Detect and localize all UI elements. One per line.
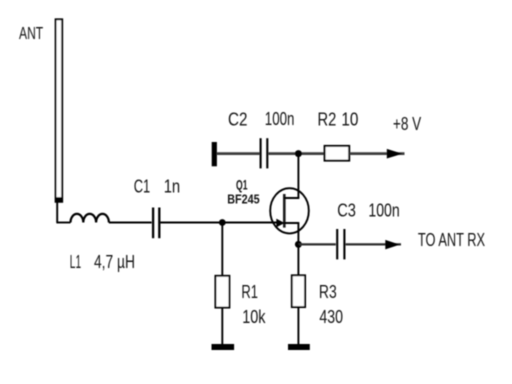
label C2	[228, 110, 248, 130]
wire ground bar to C2	[217, 152, 260, 155]
wire R2 to +8V arrow	[349, 152, 404, 155]
transistor Q1	[270, 188, 309, 233]
svg-text:1n: 1n	[164, 176, 181, 196]
svg-text:430: 430	[319, 307, 343, 327]
svg-text:ANT: ANT	[19, 23, 43, 43]
label Q1	[236, 176, 248, 192]
label C3 value 100n	[368, 201, 399, 221]
label Q1 type BF245	[227, 192, 260, 206]
svg-text:C1: C1	[134, 176, 151, 196]
label C2 value 100n	[265, 109, 295, 129]
resistor R2	[325, 146, 350, 161]
ground under R1	[212, 344, 235, 350]
capacitor C2	[261, 138, 268, 168]
junction node at gate / R1	[219, 219, 226, 226]
junction node source / C3 / R3	[295, 241, 302, 248]
wire L1 to C1	[109, 222, 152, 224]
svg-text:L1: L1	[70, 252, 81, 272]
svg-text:R2: R2	[318, 110, 337, 130]
label R2 value 10	[341, 110, 358, 130]
label +8 V net	[393, 114, 421, 134]
label R1 value 10k	[242, 307, 266, 327]
svg-text:BF245: BF245	[227, 192, 260, 206]
antenna ANT	[55, 19, 62, 202]
wire junction down to R3	[297, 244, 299, 275]
label C3	[337, 201, 356, 221]
wire antenna to L1	[56, 202, 70, 223]
svg-text:100n: 100n	[265, 109, 295, 129]
label L1	[70, 252, 81, 272]
wire C1 to gate of Q1	[161, 222, 278, 224]
svg-text:C3: C3	[337, 201, 356, 221]
svg-text:R3: R3	[319, 282, 337, 302]
+8V supply arrow terminal	[387, 149, 403, 159]
label L1 value 4,7 µH	[94, 252, 135, 272]
wire R3 to ground	[297, 307, 299, 344]
svg-text:+8 V: +8 V	[393, 114, 421, 134]
ground under R3	[288, 344, 310, 350]
label C1	[134, 176, 151, 196]
svg-text:R1: R1	[241, 282, 258, 302]
svg-text:10k: 10k	[242, 307, 266, 327]
wire junction down to R1	[221, 223, 223, 276]
svg-text:4,7 µH: 4,7 µH	[94, 252, 135, 272]
ground bar at C2 left	[212, 142, 217, 166]
wire junction to C3	[298, 243, 335, 245]
resistor R3	[292, 275, 305, 307]
label C1 value 1n	[164, 176, 181, 196]
resistor R1	[215, 276, 229, 308]
svg-text:100n: 100n	[368, 201, 399, 221]
wire R1 to ground	[221, 308, 223, 345]
svg-text:10: 10	[341, 110, 358, 130]
label R3	[319, 282, 337, 302]
wire C3 to output arrow	[346, 243, 401, 245]
label TO ANT RX net	[418, 230, 485, 250]
wire rail junction down to Q1 drain	[297, 154, 299, 198]
output arrow TO ANT RX	[385, 240, 400, 250]
capacitor C1	[153, 208, 159, 239]
junction node drain / supply rail	[295, 150, 302, 157]
label R3 value 430	[319, 307, 343, 327]
svg-text:Q1: Q1	[236, 176, 248, 192]
label ANT	[19, 23, 43, 43]
inductor L1	[71, 214, 109, 223]
wire C2 to R2 (drain supply rail)	[268, 152, 326, 155]
label R2	[318, 110, 337, 130]
capacitor C3	[337, 229, 344, 259]
svg-text:TO ANT RX: TO ANT RX	[418, 230, 485, 250]
label R1	[241, 282, 258, 302]
svg-text:C2: C2	[228, 110, 248, 130]
wire Q1 source down to output junction	[297, 223, 299, 244]
